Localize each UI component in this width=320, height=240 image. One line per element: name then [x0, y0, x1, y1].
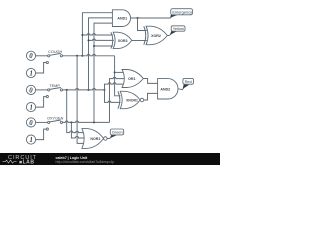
flag Yellow [171, 26, 185, 31]
node O1 logic source 1 [26, 135, 35, 144]
wire AND1 output down to XOR2 in1 [138, 18, 147, 31]
wire NOR1 output [107, 137, 110, 139]
junction TEMP row / V66.7 [66, 89, 68, 91]
svg-text:■LAB: ■LAB [19, 159, 35, 165]
svg-text:http://circuitlab.com/c8ah7u8d: http://circuitlab.com/c8ah7u8dmqv4p [56, 160, 115, 164]
node T1 logic source 1 [26, 103, 35, 112]
wire COUGH up to AND1 in1 [82, 13, 112, 56]
junction TEMP row / V88.5 [88, 89, 90, 91]
switch SW1 (COUGH) [36, 50, 63, 73]
junction COUGH row / V82.4 [81, 55, 83, 57]
svg-text:0: 0 [29, 53, 33, 60]
wire TEMP down to XNOR1 in2 [105, 90, 107, 103]
flag Red [183, 78, 194, 84]
wire XOR3 in3 (OXYGEN tap) [94, 45, 113, 47]
footer bar [0, 153, 220, 165]
junction OXYGEN row / V94.0 [93, 121, 95, 123]
svg-text:XNOR1: XNOR1 [126, 98, 138, 102]
pointer Green flag [110, 135, 117, 139]
svg-text:OXYGEN: OXYGEN [47, 116, 64, 120]
svg-text:AND1: AND1 [117, 17, 127, 21]
junction XOR3 in1 / V82.4 [81, 34, 83, 36]
junction OXYGEN row / V71.4 [70, 121, 72, 123]
flag Emergency [171, 9, 193, 15]
junction TEMP row / V104.5 [104, 89, 106, 91]
gate XNOR1 [118, 91, 144, 108]
wire XOR3 in2 (TEMP tap) [89, 39, 114, 40]
gate XOR2 [144, 26, 168, 45]
junction COUGH row / V77.1 [76, 55, 78, 57]
svg-text:OR1: OR1 [128, 77, 135, 81]
wire OR1 in2 row with hop [111, 77, 125, 78]
svg-text:AND2: AND2 [160, 88, 170, 92]
gate AND2 [158, 79, 178, 99]
wire OR1 output to AND2 in1 [143, 79, 157, 84]
svg-text:0: 0 [29, 120, 33, 127]
wire TEMP row [63, 89, 105, 90]
wire XNOR1 output to AND2 in2 [144, 93, 158, 100]
svg-text:XOR3: XOR3 [118, 39, 128, 43]
node C1 logic source 1 [26, 68, 35, 77]
gate OR1 [122, 70, 143, 88]
gate NOR1 [82, 129, 107, 149]
switch SW2 (TEMP) [36, 84, 63, 107]
wire COUGH down to OR1 in1 / XNOR1 in1 [115, 56, 121, 96]
wire OXYGEN row [63, 121, 110, 122]
pointer Emergency flag [170, 15, 177, 19]
wire NOR1 in1 row with hops [70, 131, 85, 133]
wire COUGH row [63, 54, 115, 55]
gate AND1 [112, 10, 130, 27]
node O0 logic source 0 [26, 118, 35, 127]
svg-text:Green: Green [112, 130, 123, 135]
junction V114.6 / OR1 in1 [114, 71, 116, 73]
wire OXYGEN up to OR1 in2 [110, 79, 112, 123]
pointer Red flag [182, 85, 189, 91]
svg-text:1: 1 [30, 137, 33, 144]
svg-text:Emergency: Emergency [172, 10, 192, 15]
wire OR1 in3 row with hops [106, 83, 123, 84]
wire AND1 output to Emergency [131, 17, 171, 19]
flag Green [110, 129, 123, 135]
wire TEMP down to NOR1 in1 [67, 90, 70, 133]
wire COUGH down to NOR1 in3 [77, 56, 84, 144]
svg-text:1: 1 [30, 70, 33, 77]
svg-text:1: 1 [30, 105, 33, 112]
gate XOR3 [111, 32, 132, 48]
wire NOR1 in2 row with hop [75, 136, 86, 138]
node C0 logic source 0 [26, 51, 35, 60]
svg-text:Red: Red [185, 79, 192, 84]
svg-text:XOR2: XOR2 [151, 34, 161, 38]
wire AND2 output [178, 89, 183, 90]
CircuitLab logo [3, 155, 37, 166]
wire XOR3 in1 (COUGH tap) [82, 34, 113, 35]
junction AND1 output [137, 17, 139, 19]
svg-text:Yellow: Yellow [173, 26, 184, 31]
wire TEMP up to AND1 in2 [89, 18, 113, 90]
wire XNOR1 in2 row with hop [106, 101, 120, 102]
svg-text:NOR1: NOR1 [90, 137, 100, 141]
wire OR1 in1 row [115, 71, 124, 73]
pointer Yellow flag [170, 31, 178, 36]
junction XOR3 in2 / V88.5 [88, 39, 90, 41]
switch SW3 (OXYGEN) [36, 116, 64, 139]
svg-text:TEMP: TEMP [49, 84, 60, 88]
node T0 logic source 0 [26, 85, 35, 94]
svg-text:0: 0 [29, 87, 33, 94]
wire OXYGEN down to NOR1 in2 [71, 122, 75, 138]
wire XOR2 output [167, 34, 170, 37]
wire TEMP up to OR1 in3 [105, 84, 107, 90]
wire OXYGEN up to AND1 in3 [94, 23, 112, 122]
junction XOR3 in3 / V94.0 [93, 45, 95, 47]
wire XOR3 output to XOR2 in2 [132, 40, 147, 42]
